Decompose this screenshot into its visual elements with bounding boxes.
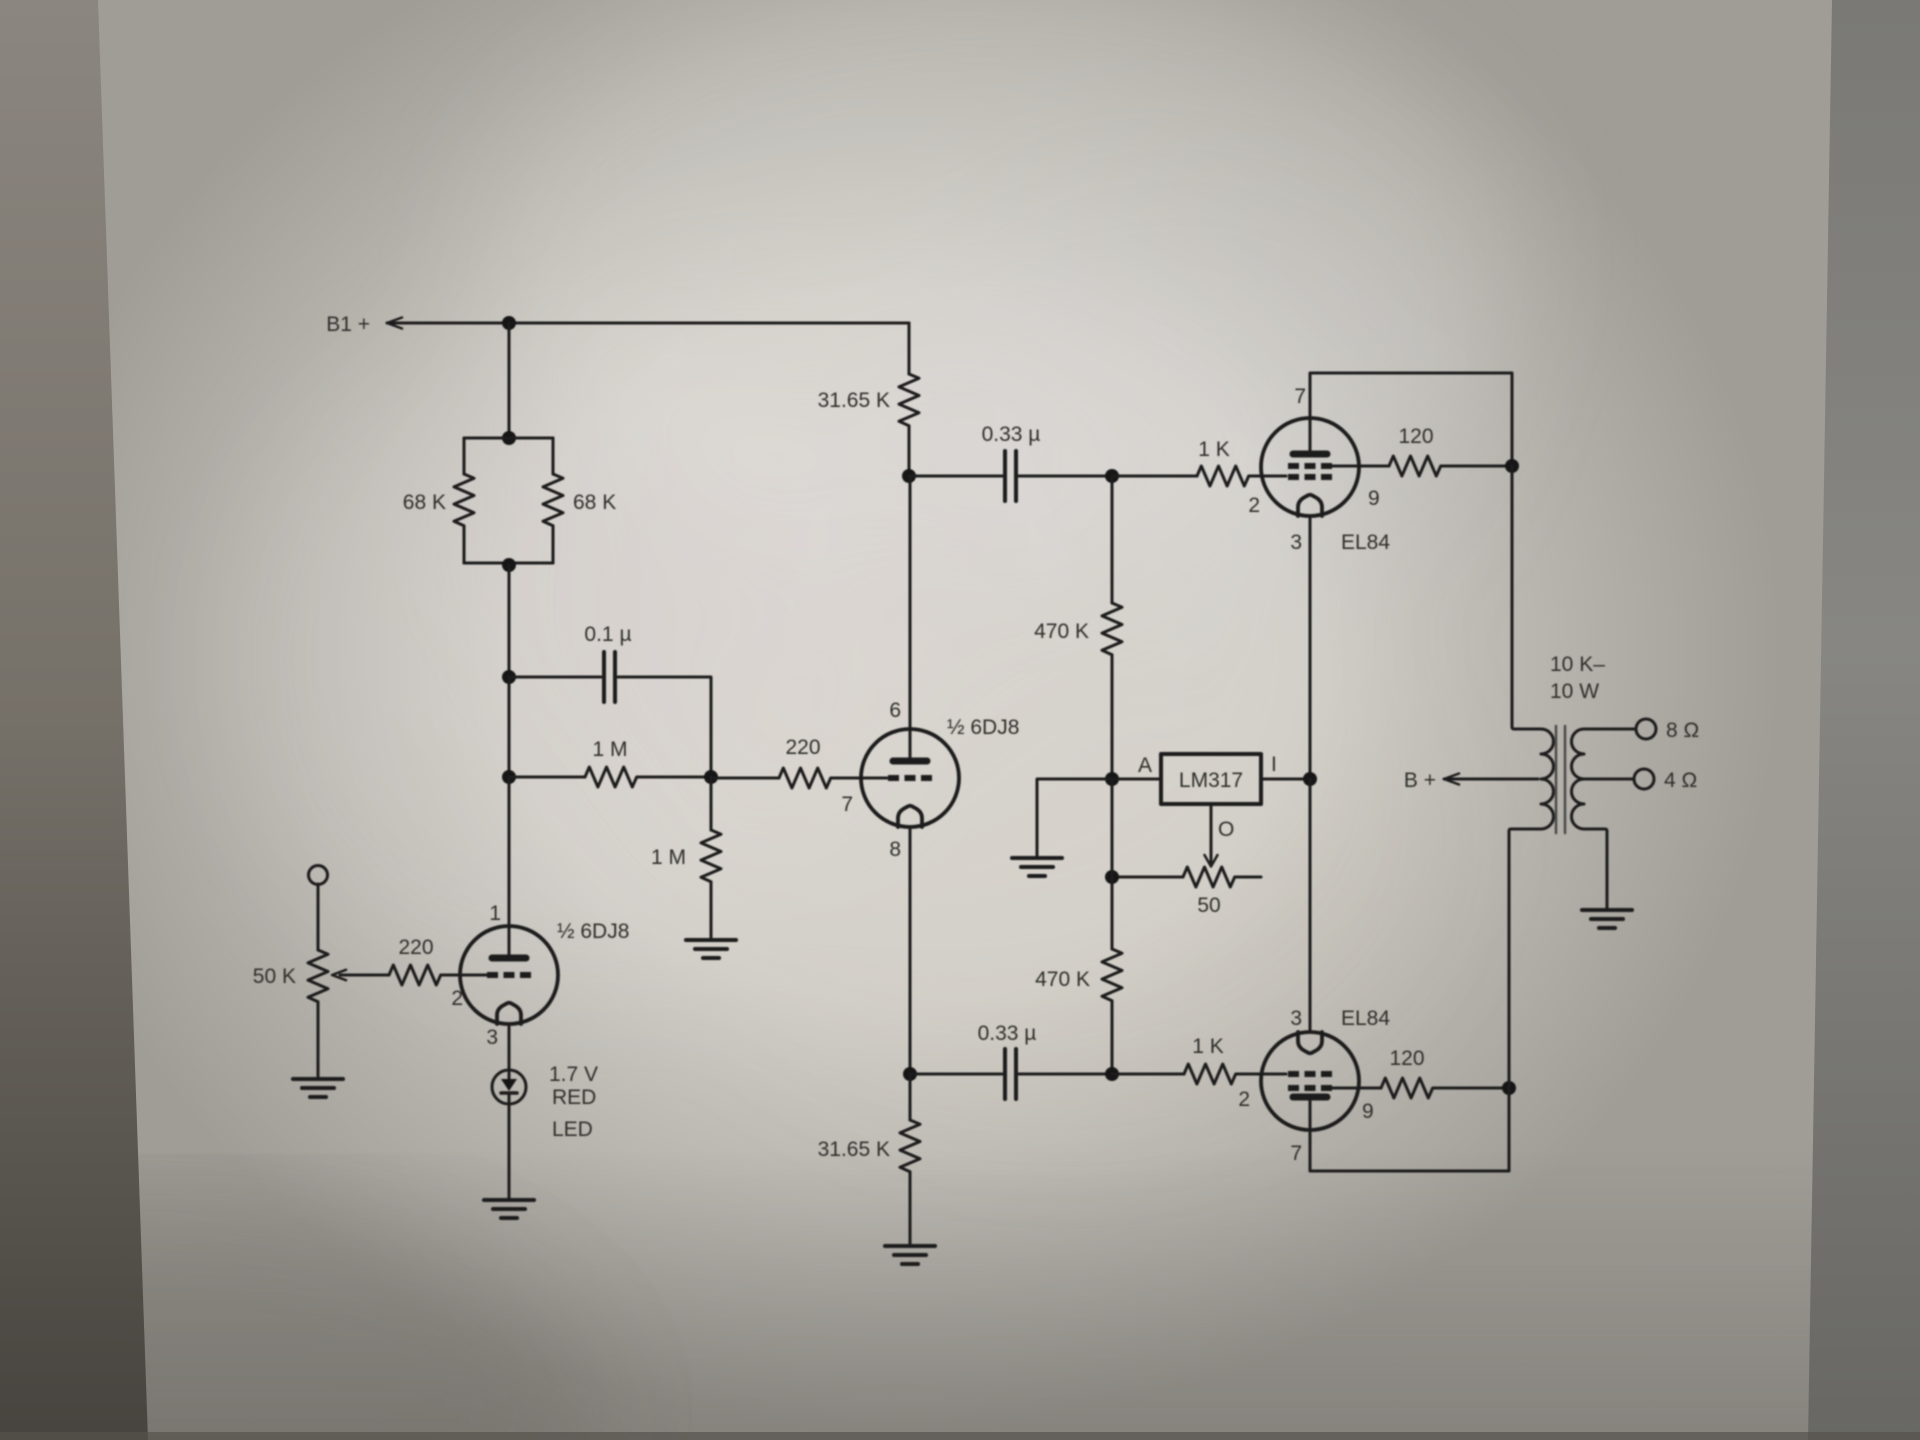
label pin 3 V1 [486, 1026, 498, 1049]
wire V4 plate pin7 down and around to rail [1310, 1088, 1509, 1171]
label pin 7 V2 [841, 793, 853, 816]
svg-text:2: 2 [1238, 1088, 1250, 1111]
svg-text:31.65 K: 31.65 K [818, 1138, 890, 1161]
svg-text:220: 220 [398, 936, 433, 959]
svg-text:4 Ω: 4 Ω [1664, 769, 1697, 792]
label pin 9 V4 [1362, 1100, 1374, 1123]
svg-text:½ 6DJ8: ½ 6DJ8 [557, 920, 629, 943]
resistor 120 bottom [1332, 1078, 1509, 1098]
diode LED red [492, 1070, 526, 1104]
label 31.65K bottom [818, 1138, 890, 1161]
resistor 68K right [543, 438, 563, 563]
svg-text:470 K: 470 K [1035, 968, 1090, 991]
svg-text:120: 120 [1398, 425, 1433, 448]
junction dot top of 68K pair [502, 431, 516, 445]
resistor 1K bottom [1112, 1064, 1261, 1084]
wire V4 grid row into tube [1261, 1073, 1286, 1076]
wire V4 cathode pin3 up to LM317 node [1309, 779, 1312, 1032]
label 1K bottom [1192, 1035, 1224, 1058]
label pin 3 V4 [1290, 1007, 1302, 1030]
label 0.1u [584, 623, 631, 646]
wire 0.33u top to 470K node [1019, 475, 1112, 478]
junction dot right rail bottom [1502, 1081, 1516, 1095]
terminal 8 ohm [1636, 719, 1656, 739]
label pin 7 V4 [1290, 1142, 1302, 1165]
svg-text:1.7 V: 1.7 V [549, 1063, 598, 1086]
svg-text:9: 9 [1362, 1100, 1374, 1123]
wire V2 cathode pin8 down to 0.33u node [909, 827, 912, 1074]
label pin 6 V2 [889, 699, 901, 722]
label 120 bottom [1389, 1047, 1424, 1070]
svg-text:1: 1 [489, 902, 501, 925]
label EL84 bottom [1341, 1007, 1390, 1030]
svg-text:LM317: LM317 [1179, 769, 1243, 792]
wire B+ center tap with arrow [1444, 774, 1538, 785]
label 470K top [1034, 620, 1089, 643]
wire V3 cathode pin3 down to LM317 node [1309, 516, 1312, 779]
svg-text:B1 +: B1 + [326, 313, 370, 336]
junction dot bottom of 68K pair [502, 558, 516, 572]
ground at node A [1012, 858, 1062, 876]
IC LM317 [1161, 754, 1261, 804]
ground below LED [484, 1200, 534, 1218]
label pin O [1218, 818, 1234, 841]
wire 68K bottom bracket [464, 562, 553, 565]
potentiometer 50 [1112, 867, 1261, 887]
label 0.33u top [982, 423, 1041, 446]
label pin I [1271, 753, 1277, 776]
wire 0.1u node down to grid node [508, 677, 511, 777]
svg-text:220: 220 [785, 736, 820, 759]
svg-text:470 K: 470 K [1034, 620, 1089, 643]
svg-text:1 K: 1 K [1192, 1035, 1224, 1058]
svg-text:50: 50 [1197, 894, 1220, 917]
svg-text:3: 3 [1290, 1007, 1302, 1030]
label pin 2 V1 [451, 987, 463, 1010]
wire V3 grid row into tube [1261, 475, 1286, 478]
label LED [552, 1118, 593, 1141]
junction dot plate node V2 [902, 469, 916, 483]
label half 6DJ8 V1 [557, 920, 629, 943]
resistor 31.65K top [899, 323, 919, 476]
wire B1+ rail with arrow [387, 318, 909, 329]
svg-text:0.33 µ: 0.33 µ [982, 423, 1041, 446]
svg-text:3: 3 [486, 1026, 498, 1049]
label B+ [1404, 769, 1436, 792]
resistor 120 top [1332, 456, 1512, 476]
label pin 1 V1 [489, 902, 501, 925]
label RED [552, 1086, 596, 1109]
label 68K left [403, 491, 446, 514]
svg-text:A: A [1138, 754, 1152, 777]
resistor 1M vertical [701, 777, 721, 938]
label 470K bottom [1035, 968, 1090, 991]
ground below 50K [293, 1079, 343, 1097]
tube V1 left half 6DJ8 [460, 926, 558, 1024]
wire V1 cathode pin3 down to LED [508, 1024, 511, 1070]
node B1+ label [326, 313, 370, 336]
svg-text:10 W: 10 W [1550, 680, 1599, 703]
resistor 68K left [454, 438, 474, 563]
svg-text:O: O [1218, 818, 1234, 841]
svg-text:2: 2 [451, 987, 463, 1010]
label 1.7V [549, 1063, 598, 1086]
transformer core [1556, 726, 1565, 833]
capacitor 0.33u bottom [1005, 1049, 1016, 1099]
wire node A ground stub [1037, 779, 1112, 856]
resistor 470K bottom [1102, 877, 1122, 1074]
label 120 top [1398, 425, 1433, 448]
label 1K top [1198, 438, 1230, 461]
label 68K right [573, 491, 616, 514]
svg-text:1 M: 1 M [592, 738, 627, 761]
svg-text:6: 6 [889, 699, 901, 722]
svg-text:½ 6DJ8: ½ 6DJ8 [947, 716, 1019, 739]
terminal 4 ohm [1634, 769, 1654, 789]
label 1M vertical [651, 846, 686, 869]
label pin 2 V4 [1238, 1088, 1250, 1111]
label 0.33u bottom [978, 1022, 1037, 1045]
wire plate node to 0.33u top [909, 475, 1002, 478]
label EL84 top [1341, 531, 1390, 554]
svg-text:3: 3 [1290, 531, 1302, 554]
label 50 [1197, 894, 1220, 917]
resistor 1K top [1112, 466, 1261, 486]
label 31.65K top [818, 389, 890, 412]
wire 0.1u cap to corner and down to 1M node [618, 677, 711, 777]
svg-text:0.1 µ: 0.1 µ [584, 623, 631, 646]
svg-text:8 Ω: 8 Ω [1666, 719, 1699, 742]
tube V2 middle half 6DJ8 [861, 729, 959, 827]
transformer T1 secondary [1571, 729, 1636, 908]
label 8 ohm [1666, 719, 1699, 742]
svg-text:EL84: EL84 [1341, 1007, 1390, 1030]
input terminal circle [309, 866, 328, 885]
label 50K [253, 965, 296, 988]
wire 68K pair down to 0.1u node [508, 565, 511, 677]
capacitor 0.1u [604, 652, 615, 702]
wire V1 plate pin1 up to grid node [508, 777, 511, 955]
svg-text:B +: B + [1404, 769, 1436, 792]
potentiometer 50K [308, 884, 328, 1077]
svg-text:8: 8 [889, 838, 901, 861]
wire LM317 O down with arrow [1205, 804, 1218, 867]
svg-text:EL84: EL84 [1341, 531, 1390, 554]
wire 0.33u bottom to 470K node [1019, 1073, 1112, 1076]
junction dot V1 grid node [502, 770, 516, 784]
ground below transformer secondary [1582, 910, 1632, 928]
label node A [1138, 754, 1152, 777]
junction dot 0.1u node [502, 670, 516, 684]
svg-text:68 K: 68 K [403, 491, 446, 514]
wire LED to ground [508, 1104, 511, 1198]
capacitor 0.33u top [1005, 451, 1016, 501]
label pin 9 V3 [1368, 487, 1380, 510]
resistor 220 V1 grid [332, 965, 487, 985]
svg-text:50 K: 50 K [253, 965, 296, 988]
label LM317 [1179, 769, 1243, 792]
wire V2 plate pin6 up to plate node [909, 476, 912, 758]
svg-text:I: I [1271, 753, 1277, 776]
svg-text:7: 7 [1294, 385, 1306, 408]
transformer T1 primary [1509, 466, 1554, 1088]
label 220 middle [785, 736, 820, 759]
tube V3 top EL84 [1261, 418, 1359, 516]
resistor 470K top [1102, 476, 1122, 779]
wire V3 pin7 plate up and over to right rail [1310, 373, 1512, 466]
svg-text:68 K: 68 K [573, 491, 616, 514]
node junction B1/68K [502, 316, 516, 330]
svg-text:2: 2 [1248, 494, 1260, 517]
label 4 ohm [1664, 769, 1697, 792]
junction dot top 470K node [1105, 469, 1119, 483]
wire LM317 I out to rail [1261, 778, 1310, 781]
wire B1 junction down to 68K pair [508, 323, 511, 438]
resistor 220 to V2 grid [711, 768, 887, 788]
label pin 8 V2 [889, 838, 901, 861]
wire 68K top bracket [464, 437, 553, 440]
junction dot V2 cathode node [903, 1067, 917, 1081]
wire cathode node to 0.33u bottom [910, 1073, 1002, 1076]
label pin 3 V3 [1290, 531, 1302, 554]
resistor 1M horizontal [509, 767, 711, 787]
svg-text:31.65 K: 31.65 K [818, 389, 890, 412]
junction dot right rail top [1505, 459, 1519, 473]
label 1M horizontal [592, 738, 627, 761]
label pin 2 V3 [1248, 494, 1260, 517]
junction dot node A [1105, 772, 1119, 786]
resistor 31.65K bottom [900, 1074, 920, 1244]
junction dot bottom 470K node [1105, 1067, 1119, 1081]
label 220 left [398, 936, 433, 959]
wire A node down to 50 node [1111, 779, 1114, 877]
svg-text:120: 120 [1389, 1047, 1424, 1070]
ground below 31.65K bottom [885, 1246, 935, 1264]
wire node A to LM317 [1112, 778, 1161, 781]
junction dot 50 pot node [1105, 870, 1119, 884]
svg-text:7: 7 [1290, 1142, 1302, 1165]
svg-text:0.33 µ: 0.33 µ [978, 1022, 1037, 1045]
label half 6DJ8 V2 [947, 716, 1019, 739]
svg-text:9: 9 [1368, 487, 1380, 510]
svg-text:7: 7 [841, 793, 853, 816]
tube V4 bottom EL84 [1261, 1032, 1359, 1130]
svg-text:1 M: 1 M [651, 846, 686, 869]
wire node to 0.1u cap [509, 676, 601, 679]
ground below 1M vertical [686, 940, 736, 958]
svg-text:LED: LED [552, 1118, 593, 1141]
junction dot 1M/220 node [704, 770, 718, 784]
svg-text:1 K: 1 K [1198, 438, 1230, 461]
svg-text:10 K–: 10 K– [1550, 653, 1605, 676]
label pin 7 V3 [1294, 385, 1306, 408]
junction dot LM317 out [1303, 772, 1317, 786]
label 10K-10W [1550, 653, 1605, 703]
svg-text:RED: RED [552, 1086, 596, 1109]
